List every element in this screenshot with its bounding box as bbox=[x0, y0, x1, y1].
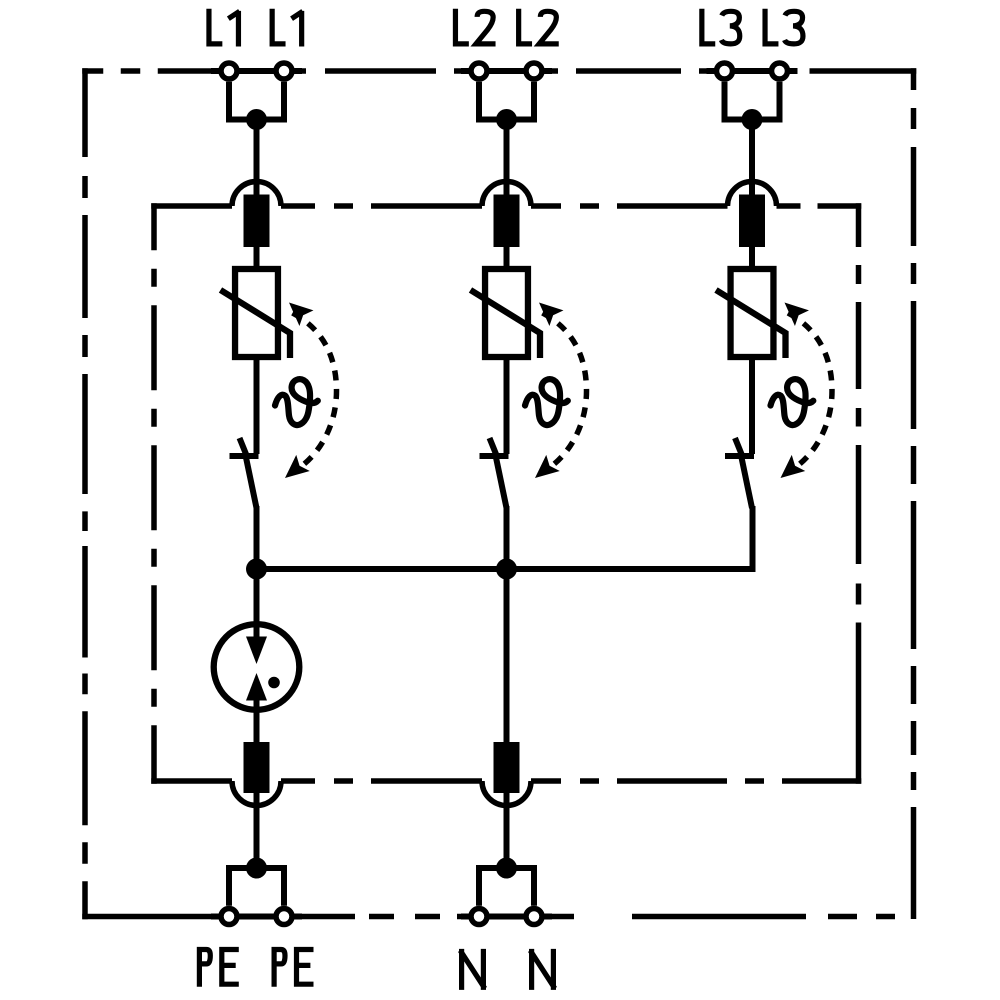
outer boundary: top edge, corner to L1 pair bbox=[82, 68, 219, 74]
plug contact (black) L3 bbox=[739, 195, 765, 248]
varistor RU1 symbol stroke bbox=[221, 290, 291, 358]
enclosure boundary: top edge, L2 to L3 entry bbox=[531, 203, 728, 209]
wire stub into PE terminal pair, right (bottom edge) bbox=[284, 914, 302, 920]
wire: L1 varistor to disconnector bbox=[254, 358, 260, 454]
wire: N terminal pair link bbox=[479, 914, 534, 920]
wire stub into L3 terminal pair, left (top edge) bbox=[707, 68, 725, 74]
outer boundary: bottom edge, PE pair to N pair bbox=[294, 914, 469, 920]
enclosure boundary: top edge, corner to L1 entry bbox=[151, 203, 232, 209]
wire: L3 drop to enclosure bbox=[749, 120, 755, 201]
thermal disconnector F3 contact bar bbox=[725, 453, 754, 459]
terminal L3 (right circle) bbox=[772, 63, 788, 79]
label text: L3 "L" bbox=[765, 9, 778, 44]
wire stub into PE terminal pair, left (bottom edge) bbox=[211, 914, 229, 920]
temperature symbol (theta) for F2 bbox=[525, 379, 568, 425]
outer dash-dot boundary: left side bbox=[82, 68, 88, 919]
arrowhead (upper) of action arrow F3 bbox=[777, 295, 809, 326]
dashed action arrow arc for F3 bbox=[788, 313, 832, 471]
label text: PE "E" bbox=[297, 950, 314, 985]
temperature symbol (theta) for F1 bbox=[275, 379, 318, 425]
node: PE junction dot bbox=[246, 858, 267, 879]
wire: L1 drop to enclosure bbox=[254, 120, 260, 201]
plug contact (black) L2 bbox=[494, 195, 520, 248]
wire: L3 terminal bracket bbox=[725, 82, 780, 120]
enclosure boundary: bottom edge, PE exit to N exit bbox=[281, 778, 482, 784]
node: N junction dot bbox=[496, 858, 517, 879]
label text: L1 digit bbox=[292, 11, 303, 47]
enclosure boundary: bottom edge, corner to PE exit bbox=[151, 778, 232, 784]
outer dash-dot boundary: right side bbox=[911, 68, 917, 919]
wire: L3 disconnector to bus bbox=[750, 506, 756, 569]
spark gap F4 upper electrode arrow bbox=[246, 637, 267, 665]
wire: L2 disconnector to bus bbox=[504, 506, 510, 569]
label text: L2 "L" bbox=[519, 9, 532, 44]
outer boundary: bottom edge, corner to PE pair bbox=[82, 914, 219, 920]
terminal PE (left circle) bbox=[221, 909, 237, 925]
thermal disconnector F2 blade bbox=[496, 458, 507, 509]
outer boundary: bottom edge, N pair to corner bbox=[544, 914, 916, 920]
wire stub into N terminal pair, right (bottom edge) bbox=[534, 914, 552, 920]
outer boundary: top edge, L1 pair to L2 pair bbox=[294, 68, 469, 74]
wire: L2 varistor to disconnector bbox=[504, 358, 510, 454]
thermal disconnector F2 contact bar bbox=[480, 453, 509, 459]
wire: L3 terminal pair link bbox=[725, 68, 780, 74]
node: L3 junction dot bbox=[742, 109, 763, 130]
spark gap F4 gas-filled indicator dot bbox=[268, 677, 280, 689]
label text: L3 digit bbox=[721, 11, 739, 44]
arrowhead (lower) of action arrow F3 bbox=[774, 455, 806, 486]
wire: L2 plug to varistor bbox=[504, 245, 510, 270]
wire stub into L1 terminal pair, right (top edge) bbox=[284, 68, 302, 74]
spark gap F4 electrode lead (top) bbox=[254, 621, 260, 640]
thermal disconnector F3 blade bbox=[742, 458, 753, 509]
label text: L1 "L" bbox=[272, 9, 285, 44]
varistor RU2 body bbox=[485, 269, 528, 357]
wire stub into L3 terminal pair, right (top edge) bbox=[780, 68, 798, 74]
outer boundary: top edge, L2 pair to L3 pair bbox=[544, 68, 715, 74]
enclosure dashed boundary: left side bbox=[151, 203, 157, 784]
wire: L2 drop to enclosure bbox=[504, 120, 510, 201]
plug contact (black) N leg bbox=[494, 742, 520, 793]
outer boundary: top edge, L3 pair to corner bbox=[790, 68, 917, 74]
varistor RU2 symbol stroke bbox=[471, 290, 541, 358]
thermal disconnector F1 contact bar bbox=[230, 453, 259, 459]
thermal disconnector F2 actuator tick bbox=[490, 438, 499, 459]
terminal N (right circle) bbox=[526, 909, 542, 925]
wire: L1 terminal bracket bbox=[229, 82, 284, 120]
enclosure boundary: top edge, L1 to L2 entry bbox=[281, 203, 482, 209]
arrowhead (upper) of action arrow F1 bbox=[282, 295, 314, 326]
dashed action arrow arc for F1 bbox=[293, 313, 337, 471]
varistor RU3 symbol stroke bbox=[716, 290, 786, 358]
wire: L3 plug to varistor bbox=[749, 245, 755, 270]
thermal disconnector F1 actuator tick bbox=[240, 438, 249, 459]
wire: PE terminal bracket bbox=[229, 868, 284, 906]
wire: L3 varistor to disconnector bbox=[749, 358, 755, 454]
terminal L2 (left circle) bbox=[471, 63, 487, 79]
spark gap F4 (gas discharge tube) body bbox=[214, 624, 300, 710]
label text: L3 digit bbox=[785, 11, 803, 44]
terminal L1 (right circle) bbox=[276, 63, 292, 79]
enclosure boundary: bottom edge, N exit to corner bbox=[531, 778, 861, 784]
wire stub into L2 terminal pair, left (top edge) bbox=[461, 68, 479, 74]
thermal disconnector F3 actuator tick bbox=[735, 438, 744, 459]
label text: L1 "L" bbox=[209, 9, 222, 44]
plug contact (black) L1 bbox=[244, 195, 270, 248]
label text: L2 digit bbox=[539, 11, 559, 44]
wire: N terminal bracket bbox=[479, 868, 534, 906]
terminal L2 (right circle) bbox=[526, 63, 542, 79]
terminal PE (right circle) bbox=[276, 909, 292, 925]
wire: PE terminal pair link bbox=[229, 914, 284, 920]
enclosure boundary: top edge, L3 entry to corner bbox=[777, 203, 862, 209]
terminal N (left circle) bbox=[471, 909, 487, 925]
wire stub into N terminal pair, left (bottom edge) bbox=[461, 914, 479, 920]
spark gap F4 electrode lead (bottom) bbox=[254, 698, 260, 745]
node: bus junction at L1 bbox=[246, 559, 267, 580]
node: L2 junction dot bbox=[496, 109, 517, 130]
node: L1 junction dot bbox=[246, 109, 267, 130]
wire: PE plug to PE terminal bbox=[254, 790, 260, 868]
varistor RU3 body bbox=[731, 269, 774, 357]
dashed action arrow arc for F2 bbox=[543, 313, 587, 471]
enclosure exit arc (bottom, PE leg) bbox=[232, 781, 281, 805]
wire: L1 terminal pair link bbox=[229, 68, 284, 74]
enclosure entry arc (top, L2) bbox=[482, 182, 531, 207]
label text: N bbox=[460, 949, 485, 990]
varistor RU1 body bbox=[235, 269, 278, 357]
wire: N plug to N terminal bbox=[504, 790, 510, 868]
terminal L1 (left circle) bbox=[221, 63, 237, 79]
label text: PE "P" bbox=[199, 950, 210, 987]
wire: bus to spark gap bbox=[254, 569, 260, 641]
wire: L2 terminal pair link bbox=[479, 68, 534, 74]
arrowhead (lower) of action arrow F1 bbox=[278, 455, 310, 486]
label text: L1 digit bbox=[228, 11, 239, 47]
thermal disconnector F1 blade bbox=[246, 458, 257, 509]
arrowhead (lower) of action arrow F2 bbox=[528, 455, 560, 486]
node: bus junction at L2 bbox=[496, 559, 517, 580]
label text: L2 "L" bbox=[455, 9, 468, 44]
label text: L3 "L" bbox=[702, 9, 715, 44]
arrowhead (upper) of action arrow F2 bbox=[532, 295, 564, 326]
plug contact (black) PE leg bbox=[244, 742, 270, 793]
wire: bus to N plug bbox=[504, 569, 510, 745]
wire: L1 plug to varistor bbox=[254, 245, 260, 270]
enclosure entry arc (top, L3) bbox=[728, 182, 777, 207]
enclosure exit arc (bottom, N leg) bbox=[482, 781, 531, 805]
terminal L3 (left circle) bbox=[717, 63, 733, 79]
wire stub into L1 terminal pair, left (top edge) bbox=[211, 68, 229, 74]
wire stub into L2 terminal pair, right (top edge) bbox=[534, 68, 552, 74]
label text: PE "E" bbox=[222, 950, 239, 985]
label text: L2 digit bbox=[476, 11, 496, 44]
temperature symbol (theta) for F3 bbox=[771, 379, 814, 425]
wire: L1 disconnector to bus bbox=[254, 506, 260, 569]
enclosure dashed boundary: right side bbox=[856, 203, 862, 784]
wire: common bus bbox=[257, 566, 756, 572]
spark gap F4 lower electrode arrow bbox=[246, 673, 267, 701]
wire: L2 terminal bracket bbox=[479, 82, 534, 120]
enclosure entry arc (top, L1) bbox=[232, 182, 281, 206]
label text: PE "P" bbox=[274, 950, 285, 987]
label text: N bbox=[530, 949, 555, 990]
